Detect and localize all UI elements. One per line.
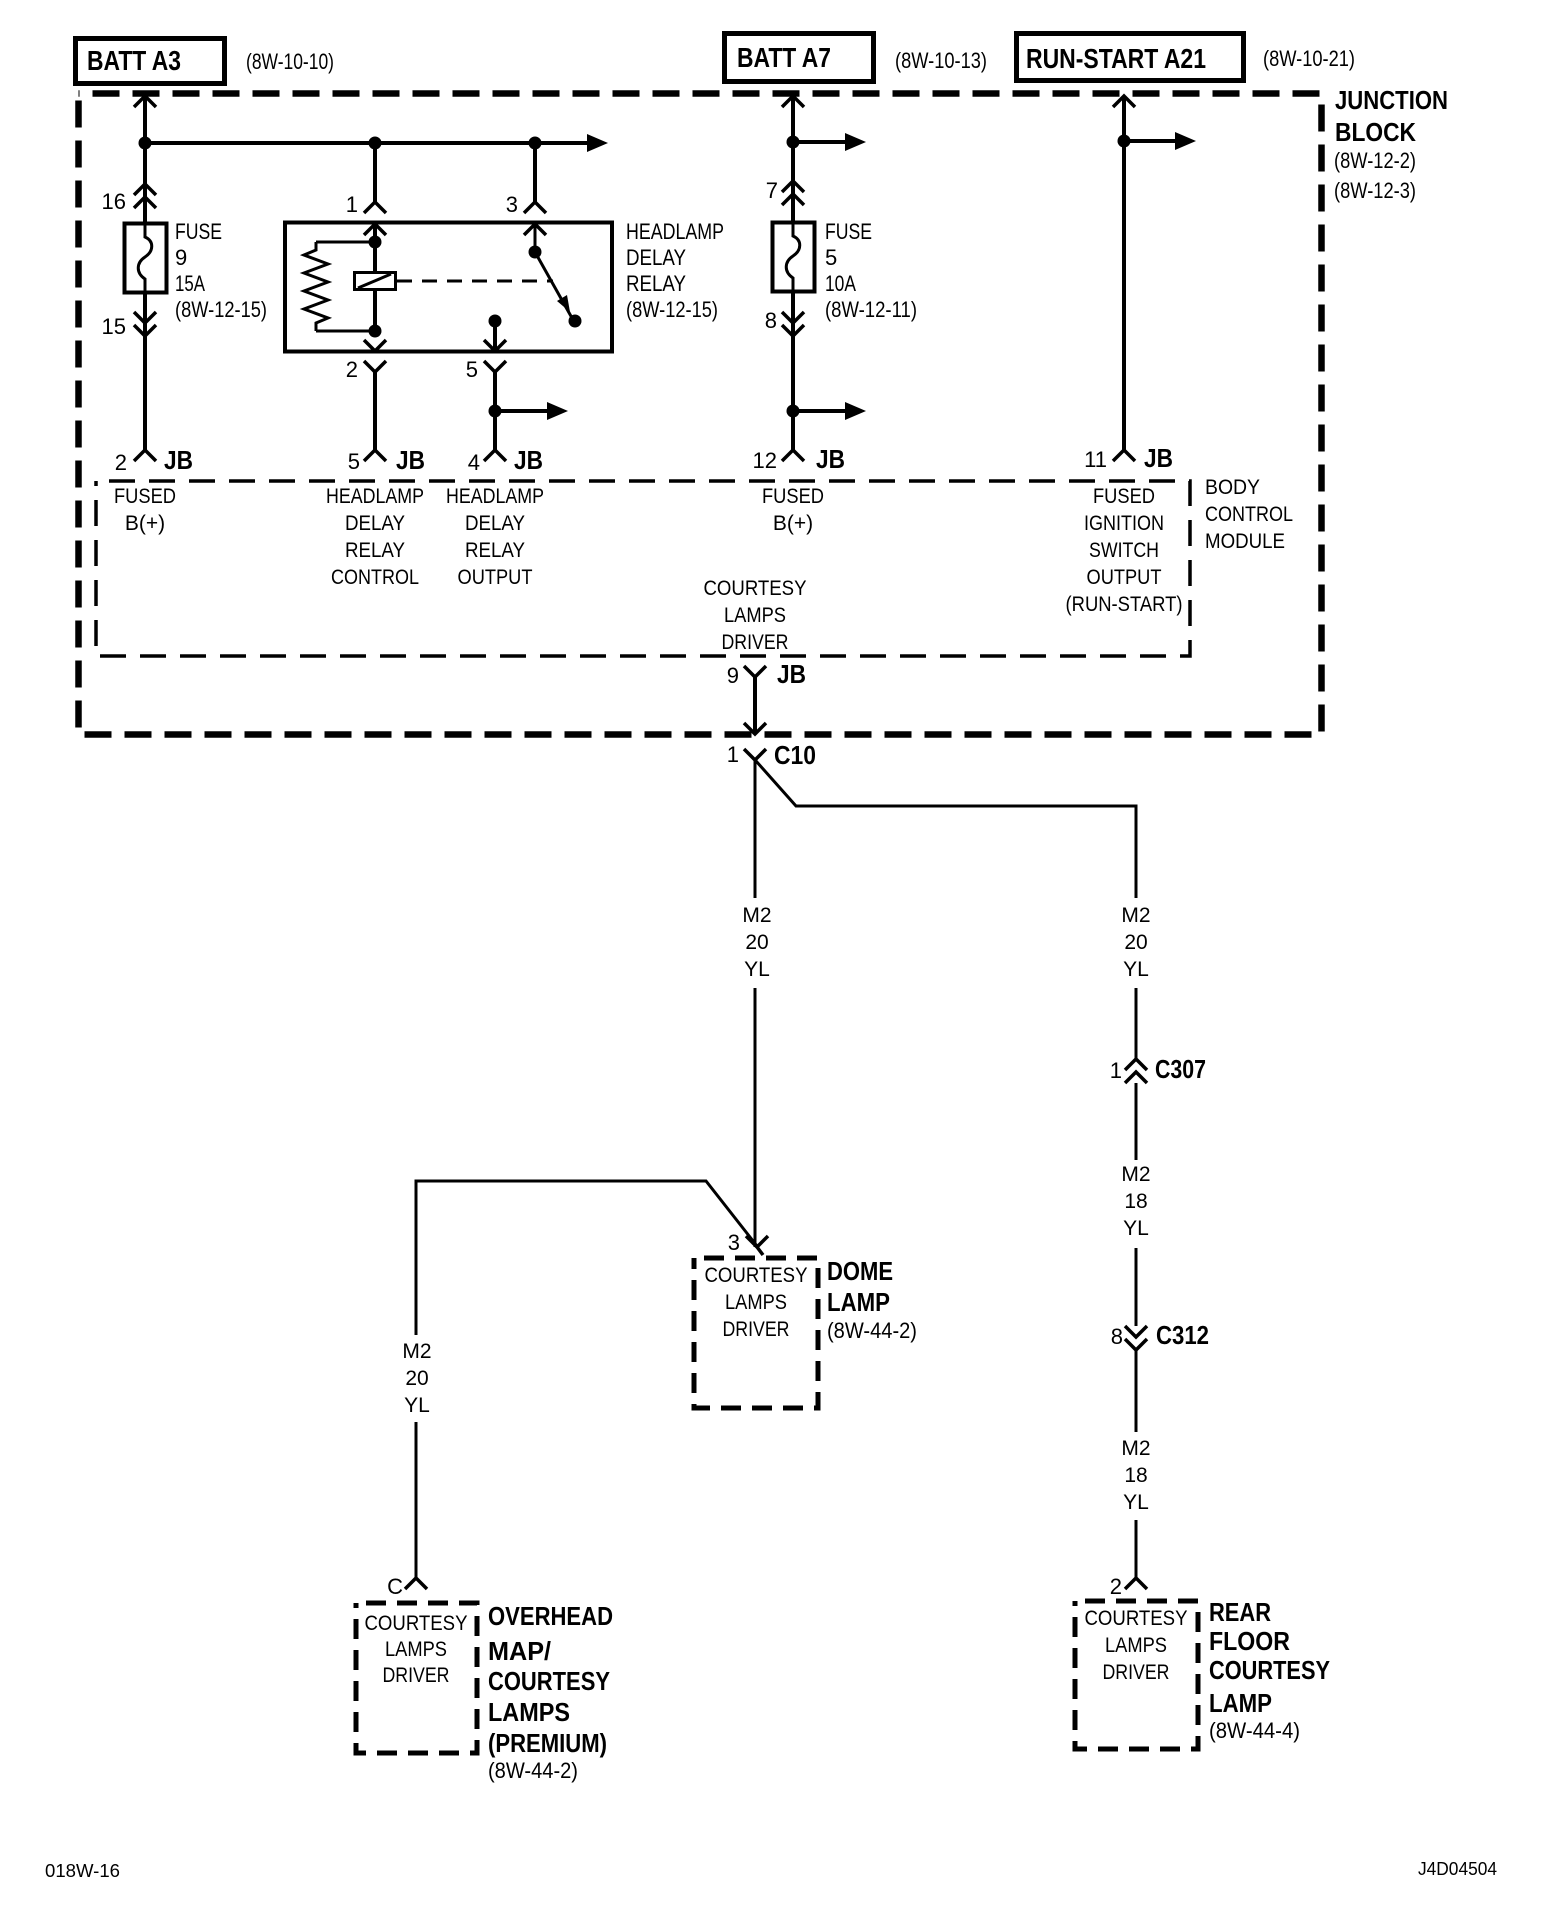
node coil top xyxy=(369,236,382,249)
svg-text:HEADLAMP: HEADLAMP xyxy=(446,485,544,508)
svg-text:LAMPS: LAMPS xyxy=(385,1638,447,1661)
fuse 5 xyxy=(773,222,815,292)
arrow branch continues xyxy=(1175,132,1196,150)
wire label M2 20 YL xyxy=(402,1340,431,1417)
wire fuse 5 to JB pin 12 xyxy=(791,291,795,450)
rear lamp function label xyxy=(1085,1607,1188,1684)
svg-text:J4D04504: J4D04504 xyxy=(1418,1859,1497,1879)
arrow into BATT A3 xyxy=(134,96,156,107)
svg-text:12: 12 xyxy=(753,448,777,473)
connector box BATT A3 xyxy=(76,39,225,84)
svg-text:CONTROL: CONTROL xyxy=(331,566,419,589)
svg-text:(8W-44-2): (8W-44-2) xyxy=(488,1758,578,1783)
node relay output branch xyxy=(489,405,502,418)
svg-text:RELAY: RELAY xyxy=(465,539,525,562)
pin 7 double chevron xyxy=(782,181,804,205)
svg-text:YL: YL xyxy=(1123,958,1149,981)
wire branch C10 to right run xyxy=(756,761,1136,1058)
connector relay pin 5 xyxy=(484,361,506,372)
svg-text:2: 2 xyxy=(115,450,127,475)
svg-text:HEADLAMP: HEADLAMP xyxy=(626,219,724,244)
svg-text:FUSE: FUSE xyxy=(175,219,222,244)
svg-text:C307: C307 xyxy=(1155,1054,1206,1084)
wire label M2 18 YL xyxy=(1121,1163,1150,1240)
junction block label xyxy=(1334,85,1448,203)
relay label xyxy=(626,219,724,322)
svg-text:BLOCK: BLOCK xyxy=(1335,117,1416,147)
svg-text:18: 18 xyxy=(1124,1190,1147,1213)
connector overhead console pin C xyxy=(405,1578,427,1589)
fuse 9 value label xyxy=(175,219,267,322)
svg-text:1: 1 xyxy=(1110,1058,1122,1083)
svg-text:(PREMIUM): (PREMIUM) xyxy=(488,1728,607,1758)
connector JB pin 12 xyxy=(782,450,804,461)
arrow branch continues xyxy=(845,133,866,151)
relay coil resistor zigzag xyxy=(304,242,328,331)
svg-text:YL: YL xyxy=(1123,1491,1149,1514)
svg-text:DRIVER: DRIVER xyxy=(1103,1661,1170,1684)
svg-text:RELAY: RELAY xyxy=(345,539,405,562)
relay coil output chevron xyxy=(364,340,386,351)
dome lamp dashed box xyxy=(694,1258,818,1408)
svg-text:DRIVER: DRIVER xyxy=(722,631,789,654)
wire relay pin 2 to JB pin 5 xyxy=(373,372,377,450)
BCM pin 12 function label xyxy=(762,485,824,535)
svg-text:JB: JB xyxy=(1144,443,1173,473)
BCM pin 2 function label xyxy=(114,485,176,535)
svg-text:RUN-START A21: RUN-START A21 xyxy=(1026,43,1206,74)
connector box BATT A7 xyxy=(725,34,874,82)
node fused B+ branch xyxy=(787,405,800,418)
svg-text:3: 3 xyxy=(506,192,518,217)
relay pin 1 entry arrow xyxy=(364,224,386,235)
wire label M2 20 YL xyxy=(742,904,771,981)
svg-text:(8W-10-13): (8W-10-13) xyxy=(895,48,987,73)
node switch common xyxy=(529,246,542,259)
wire relay pin 5 to JB pin 4 xyxy=(493,372,497,450)
connector box RUN-START A21 xyxy=(1017,34,1244,81)
svg-text:(8W-44-2): (8W-44-2) xyxy=(827,1318,917,1343)
svg-text:COURTESY: COURTESY xyxy=(365,1612,468,1635)
wire label M2 18 YL xyxy=(1121,1437,1150,1514)
body control module dashed boundary xyxy=(96,481,1190,656)
junction block dashed boundary xyxy=(79,94,1322,735)
wire label M2 20 YL xyxy=(1121,904,1150,981)
connector JB pin 2 xyxy=(134,450,156,461)
svg-text:COURTESY: COURTESY xyxy=(704,577,807,600)
svg-text:018W-16: 018W-16 xyxy=(45,1861,120,1881)
svg-text:(8W-12-3): (8W-12-3) xyxy=(1334,178,1416,203)
svg-text:MODULE: MODULE xyxy=(1205,530,1285,553)
wire BATT A7 feed into junction block xyxy=(791,97,795,223)
svg-text:LAMPS: LAMPS xyxy=(725,1291,787,1314)
overhead console dashed box xyxy=(356,1603,477,1753)
svg-text:FUSED: FUSED xyxy=(114,485,176,508)
overhead console label xyxy=(488,1601,613,1783)
svg-text:11: 11 xyxy=(1084,447,1107,472)
svg-text:20: 20 xyxy=(405,1367,428,1390)
wire branch arrow right xyxy=(793,409,846,413)
svg-text:LAMPS: LAMPS xyxy=(488,1697,570,1727)
arrow bus continues right xyxy=(587,134,608,152)
resistor top wire xyxy=(316,241,375,244)
relay coil actuation dashed link xyxy=(397,280,553,283)
svg-text:20: 20 xyxy=(745,931,768,954)
svg-text:LAMPS: LAMPS xyxy=(724,604,786,627)
svg-text:8: 8 xyxy=(1111,1324,1123,1349)
svg-text:DELAY: DELAY xyxy=(345,512,405,535)
arrow branch continues xyxy=(845,402,866,420)
svg-text:B(+): B(+) xyxy=(773,512,813,535)
svg-text:COURTESY: COURTESY xyxy=(1085,1607,1188,1630)
wire bus from BATT A3 node xyxy=(145,141,590,145)
pin 15 double chevron xyxy=(134,312,156,336)
arrow branch continues xyxy=(547,402,568,420)
overhead console function label xyxy=(365,1612,468,1687)
connector relay pin 3 xyxy=(524,202,546,213)
svg-text:IGNITION: IGNITION xyxy=(1084,512,1164,535)
wire branch arrow right from RUN-START xyxy=(1124,139,1176,143)
relay pin 5 node xyxy=(489,315,502,328)
svg-text:(8W-12-2): (8W-12-2) xyxy=(1334,148,1416,173)
relay coil feed wire xyxy=(373,224,377,331)
switch blade arrowhead xyxy=(557,295,570,312)
svg-text:DRIVER: DRIVER xyxy=(723,1318,790,1341)
connector C312 pin 8 double chevron xyxy=(1125,1326,1147,1350)
rear floor courtesy lamp label xyxy=(1209,1597,1330,1743)
relay pin 5 wire xyxy=(493,321,497,351)
connector C10 pin 1 xyxy=(744,749,766,760)
svg-text:10A: 10A xyxy=(825,271,856,296)
switch blade wire xyxy=(535,224,572,318)
svg-text:JB: JB xyxy=(777,659,806,689)
wire JB pin 9 to C10 xyxy=(753,677,757,733)
svg-text:5: 5 xyxy=(348,449,360,474)
connector JB pin 4 xyxy=(484,450,506,461)
wire C307 to C312 (M2 18 YL) xyxy=(1135,1083,1138,1326)
node at relay pin 3 branch xyxy=(529,137,542,150)
svg-text:OVERHEAD: OVERHEAD xyxy=(488,1601,613,1631)
node at BATT A3 wire xyxy=(139,137,152,150)
svg-text:16: 16 xyxy=(102,189,126,214)
node BATT A7 branch xyxy=(787,136,800,149)
svg-text:YL: YL xyxy=(404,1394,430,1417)
svg-text:5: 5 xyxy=(825,245,837,270)
svg-text:M2: M2 xyxy=(402,1340,431,1363)
svg-text:DELAY: DELAY xyxy=(626,245,686,270)
svg-text:COURTESY: COURTESY xyxy=(1209,1655,1330,1685)
svg-text:REAR: REAR xyxy=(1209,1597,1271,1627)
wire C312 to rear lamp (M2 18 YL) xyxy=(1135,1350,1138,1578)
arrow into RUN-START A21 xyxy=(1113,96,1135,107)
svg-text:20: 20 xyxy=(1124,931,1147,954)
svg-text:(RUN-START): (RUN-START) xyxy=(1066,593,1183,616)
node at relay pin 1 branch xyxy=(369,137,382,150)
connector JB pin 5 xyxy=(364,450,386,461)
svg-text:DOME: DOME xyxy=(827,1256,893,1286)
svg-text:COURTESY: COURTESY xyxy=(488,1666,610,1696)
wire branch arrow right xyxy=(495,409,549,413)
svg-text:7: 7 xyxy=(766,178,778,203)
relay pin 5 exit chevron xyxy=(484,340,506,351)
arrow into BATT A7 xyxy=(782,96,804,107)
svg-text:JB: JB xyxy=(164,445,193,475)
wire branch arrow right from BATT A7 xyxy=(793,140,846,144)
BCM pin 5 function label xyxy=(326,485,424,589)
wire bus to relay pin 1 xyxy=(373,143,377,202)
dome lamp label xyxy=(827,1256,917,1343)
svg-text:1: 1 xyxy=(346,192,358,217)
svg-text:FLOOR: FLOOR xyxy=(1209,1626,1290,1656)
svg-text:8: 8 xyxy=(765,308,777,333)
wire C10 to dome lamp (M2 20 YL) xyxy=(754,760,757,1247)
svg-text:(8W-12-15): (8W-12-15) xyxy=(626,297,718,322)
resistor bottom wire xyxy=(316,330,375,333)
svg-text:HEADLAMP: HEADLAMP xyxy=(326,485,424,508)
svg-text:B(+): B(+) xyxy=(125,512,165,535)
svg-text:COURTESY: COURTESY xyxy=(705,1264,808,1287)
connector C307 pin 1 double chevron xyxy=(1125,1059,1147,1083)
svg-text:BATT A7: BATT A7 xyxy=(737,42,831,73)
svg-text:C10: C10 xyxy=(774,740,816,770)
svg-text:4: 4 xyxy=(468,450,480,475)
svg-text:LAMPS: LAMPS xyxy=(1105,1634,1167,1657)
fuse 5 value label xyxy=(825,219,917,322)
relay coil element xyxy=(355,273,396,290)
svg-text:JUNCTION: JUNCTION xyxy=(1335,85,1448,115)
svg-text:18: 18 xyxy=(1124,1464,1147,1487)
svg-text:JB: JB xyxy=(816,444,845,474)
svg-text:M2: M2 xyxy=(1121,904,1150,927)
svg-text:15: 15 xyxy=(102,314,126,339)
svg-text:M2: M2 xyxy=(742,904,771,927)
svg-text:YL: YL xyxy=(744,958,770,981)
pin 8 double chevron xyxy=(782,312,804,336)
connector dome lamp pin 3 xyxy=(746,1236,768,1255)
svg-text:9: 9 xyxy=(175,245,187,270)
svg-text:YL: YL xyxy=(1123,1217,1149,1240)
svg-text:(8W-44-4): (8W-44-4) xyxy=(1209,1718,1300,1743)
svg-text:OUTPUT: OUTPUT xyxy=(1087,566,1162,589)
svg-text:M2: M2 xyxy=(1121,1163,1150,1186)
svg-text:2: 2 xyxy=(1110,1574,1122,1599)
svg-text:JB: JB xyxy=(396,445,425,475)
svg-text:DELAY: DELAY xyxy=(465,512,525,535)
svg-text:(8W-12-11): (8W-12-11) xyxy=(825,297,917,322)
svg-text:BATT A3: BATT A3 xyxy=(87,45,181,76)
svg-text:(8W-10-21): (8W-10-21) xyxy=(1263,46,1355,71)
svg-text:1: 1 xyxy=(727,742,739,767)
relay pin 3 entry arrow xyxy=(524,224,546,235)
wire branch to overhead console xyxy=(416,1181,757,1578)
dome lamp function label xyxy=(705,1264,808,1341)
connector JB pin 11 xyxy=(1113,450,1135,461)
svg-text:2: 2 xyxy=(346,357,358,382)
BCM pin 11 function label xyxy=(1066,485,1183,616)
connector relay pin 2 xyxy=(364,361,386,372)
node coil bottom xyxy=(369,325,382,338)
svg-text:CONTROL: CONTROL xyxy=(1205,503,1293,526)
BCM pin 4 function label xyxy=(446,485,544,589)
svg-text:M2: M2 xyxy=(1121,1437,1150,1460)
svg-text:9: 9 xyxy=(727,663,739,688)
pin 16 double chevron xyxy=(134,184,156,208)
svg-text:LAMP: LAMP xyxy=(827,1287,890,1317)
wire BATT A3 feed into junction block xyxy=(143,97,147,223)
BCM pin 9 function label xyxy=(704,577,807,654)
connector relay pin 1 xyxy=(364,202,386,213)
svg-text:(8W-12-15): (8W-12-15) xyxy=(175,297,267,322)
wire RUN-START feed into junction block xyxy=(1122,97,1126,450)
svg-text:FUSE: FUSE xyxy=(825,219,872,244)
body control module label xyxy=(1205,476,1293,553)
wire fuse 9 to JB pin 2 xyxy=(143,292,147,450)
rear floor courtesy lamp dashed box xyxy=(1075,1601,1198,1749)
svg-text:RELAY: RELAY xyxy=(626,271,686,296)
node RUN-START branch xyxy=(1118,135,1131,148)
svg-text:JB: JB xyxy=(514,445,543,475)
svg-text:C: C xyxy=(387,1574,403,1599)
switch contact node xyxy=(569,315,582,328)
headlamp delay relay box xyxy=(285,223,612,352)
fuse 9 xyxy=(125,223,167,293)
svg-text:C312: C312 xyxy=(1156,1320,1209,1350)
svg-text:3: 3 xyxy=(728,1230,740,1255)
connector rear lamp pin 2 xyxy=(1125,1578,1147,1589)
svg-text:DRIVER: DRIVER xyxy=(383,1664,450,1687)
exit arrow at junction block boundary xyxy=(744,723,766,734)
svg-text:LAMP: LAMP xyxy=(1209,1688,1272,1718)
wire bus to relay pin 3 xyxy=(533,143,537,202)
svg-text:FUSED: FUSED xyxy=(1093,485,1155,508)
svg-text:BODY: BODY xyxy=(1205,476,1260,499)
svg-text:15A: 15A xyxy=(175,271,205,296)
svg-text:SWITCH: SWITCH xyxy=(1089,539,1159,562)
svg-text:OUTPUT: OUTPUT xyxy=(458,566,533,589)
svg-text:(8W-10-10): (8W-10-10) xyxy=(246,49,334,74)
svg-text:5: 5 xyxy=(466,357,478,382)
svg-text:FUSED: FUSED xyxy=(762,485,824,508)
svg-text:MAP/: MAP/ xyxy=(488,1636,551,1666)
connector JB pin 9 xyxy=(744,666,766,677)
